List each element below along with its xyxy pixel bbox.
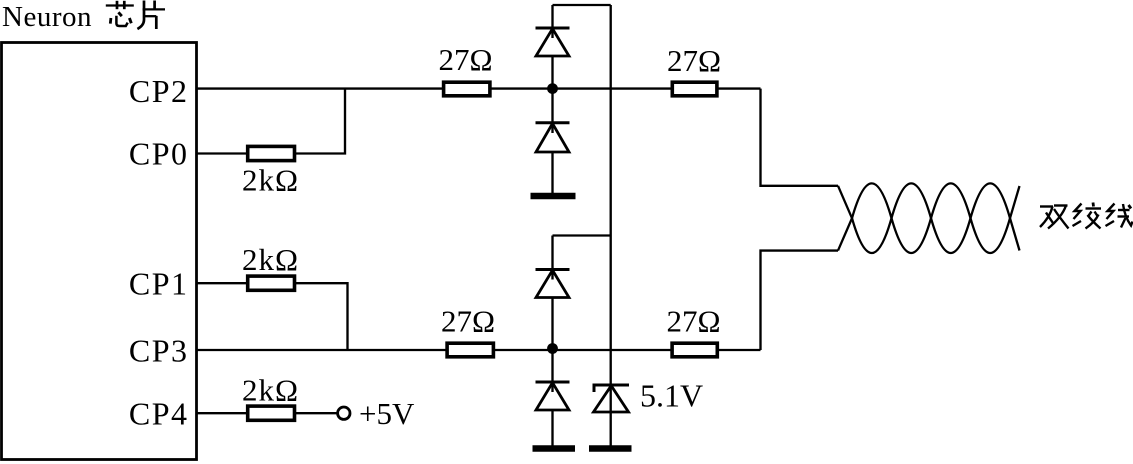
- svg-text:Neuron: Neuron: [2, 1, 92, 33]
- svg-text:2kΩ: 2kΩ: [242, 163, 299, 198]
- svg-text:CP1: CP1: [129, 266, 189, 302]
- svg-text:CP2: CP2: [129, 73, 189, 109]
- svg-text:CP4: CP4: [129, 396, 189, 432]
- svg-text:CP0: CP0: [129, 136, 189, 172]
- svg-text:27Ω: 27Ω: [438, 42, 492, 77]
- svg-text:27Ω: 27Ω: [441, 304, 495, 339]
- svg-text:2kΩ: 2kΩ: [242, 242, 299, 277]
- svg-text:5.1V: 5.1V: [640, 378, 703, 414]
- svg-text:27Ω: 27Ω: [666, 304, 720, 339]
- svg-text:27Ω: 27Ω: [667, 43, 721, 78]
- svg-text:+5V: +5V: [359, 396, 415, 431]
- svg-text:CP3: CP3: [129, 333, 189, 369]
- svg-text:2kΩ: 2kΩ: [242, 373, 299, 408]
